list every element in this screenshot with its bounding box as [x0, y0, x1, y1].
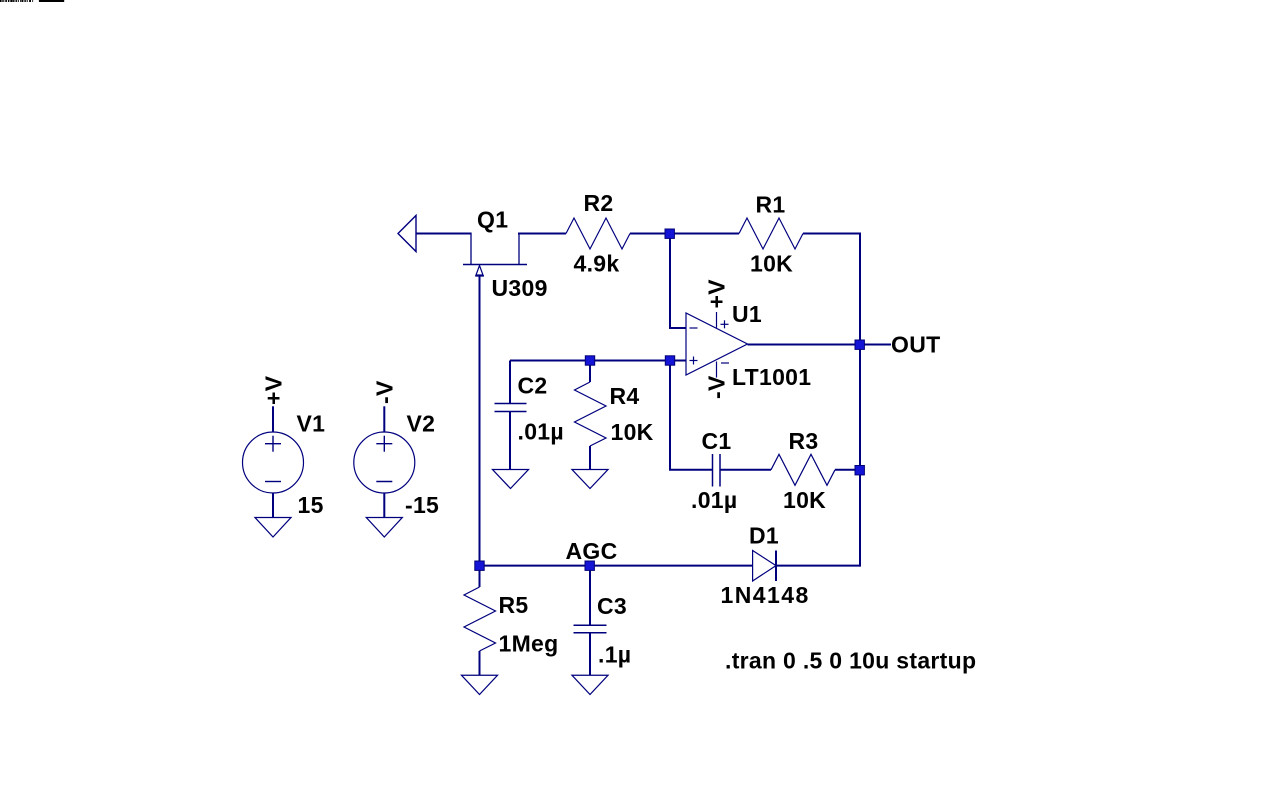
V1 plus mark — [265, 436, 281, 452]
cropped title bar fragment — [39, 0, 64, 2]
port arrow (left) — [398, 216, 416, 252]
wire junction to inverting input — [670, 234, 686, 329]
wire diode cathode to rail — [776, 565, 860, 567]
diode D1 cathode bar — [775, 551, 777, 582]
wire arrow to Q1 drain — [416, 233, 471, 235]
wire right rail vertical — [859, 233, 861, 567]
wire V2 top stub (-V net) — [383, 406, 385, 432]
wire R5 stem — [479, 566, 481, 587]
capacitor C1 — [713, 454, 721, 487]
op-amp minus mark (inv input) — [690, 327, 698, 329]
svg-text:U1: U1 — [732, 301, 762, 327]
svg-text:-15: -15 — [405, 492, 439, 518]
wire Q1 gate down to AGC — [479, 275, 481, 566]
resistor R4 — [575, 382, 607, 446]
svg-text:R2: R2 — [584, 190, 614, 216]
svg-text:15: 15 — [298, 492, 324, 518]
op-amp supply pin top — [716, 312, 718, 328]
svg-text:C2: C2 — [518, 372, 548, 398]
ground C2 — [493, 470, 529, 489]
svg-text:U309: U309 — [492, 275, 548, 301]
wire R5 to ground — [479, 651, 481, 675]
wire C3 to ground — [589, 633, 591, 676]
resistor R1 — [739, 218, 803, 249]
capacitor C2 — [495, 404, 527, 412]
wire R4 to ground — [589, 446, 591, 470]
ground R5 — [462, 675, 498, 694]
wire R4 stem — [589, 361, 591, 383]
op-amp supply pin bottom — [716, 362, 718, 378]
wire C2 to ground — [509, 412, 511, 470]
svg-text:R5: R5 — [499, 592, 529, 618]
ground V1 — [255, 518, 291, 538]
wire Q1 source to R2 — [518, 233, 566, 235]
svg-text:+V: +V — [704, 279, 730, 309]
svg-text:C1: C1 — [702, 428, 732, 454]
resistor R5 — [464, 587, 496, 651]
wire V1 to ground — [272, 493, 274, 518]
svg-text:10K: 10K — [750, 251, 793, 277]
capacitor C3 — [574, 625, 607, 633]
wire V2 to ground — [383, 493, 385, 518]
svg-text:1N4148: 1N4148 — [721, 582, 810, 608]
svg-text:.01µ: .01µ — [691, 487, 737, 513]
svg-text:OUT: OUT — [891, 331, 940, 357]
svg-text:10K: 10K — [611, 419, 654, 445]
wire C3 stem — [589, 566, 591, 626]
svg-text:D1: D1 — [749, 523, 779, 549]
resistor R3 — [771, 454, 835, 485]
ground R4 — [572, 470, 608, 489]
wire noninv junction down to feedback row — [670, 361, 713, 470]
junction AGC C3 — [585, 561, 594, 570]
ground C3 — [572, 675, 608, 694]
V2 plus mark — [376, 436, 392, 452]
op-amp plus mark (noninv input) — [690, 357, 698, 365]
svg-text:10K: 10K — [783, 487, 826, 513]
junction OUT — [855, 340, 864, 349]
ground V2 — [366, 518, 402, 538]
svg-text:C3: C3 — [597, 593, 627, 619]
transistor Q1 drain pin — [470, 233, 472, 265]
voltage source V2 circle — [354, 432, 415, 493]
wire C2 stem — [509, 361, 511, 404]
svg-text:R3: R3 — [789, 428, 819, 454]
junction noninv — [665, 356, 674, 365]
svg-text:.01µ: .01µ — [518, 419, 564, 445]
svg-text:Q1: Q1 — [477, 207, 508, 233]
junction R4 top — [585, 356, 594, 365]
svg-text:.tran 0 .5 0 10u startup: .tran 0 .5 0 10u startup — [725, 648, 976, 674]
transistor Q1 channel — [463, 264, 527, 266]
wire AGC row — [480, 565, 753, 567]
voltage source V1 circle — [243, 432, 304, 493]
junction feedback — [855, 466, 864, 475]
svg-text:V1: V1 — [297, 411, 326, 437]
svg-text:+V: +V — [261, 375, 287, 405]
svg-text:.1µ: .1µ — [598, 642, 631, 668]
svg-text:4.9k: 4.9k — [574, 251, 620, 277]
wire R3 to right rail — [835, 469, 860, 471]
svg-text:AGC: AGC — [566, 538, 618, 564]
wire R2 to R1 — [630, 233, 739, 235]
transistor Q1 gate arrow — [476, 266, 483, 276]
V1 minus mark — [265, 481, 281, 483]
svg-text:1Meg: 1Meg — [499, 631, 559, 657]
junction AGC left — [475, 561, 484, 570]
svg-text:-V: -V — [704, 375, 730, 399]
svg-text:R1: R1 — [756, 191, 786, 217]
wire middle row to non-inverting input — [510, 360, 686, 362]
resistor R2 — [566, 218, 630, 249]
op-amp minus mark (V- pin) — [721, 362, 729, 364]
wire C1 to R3 — [720, 469, 771, 471]
svg-text:LT1001: LT1001 — [732, 364, 811, 390]
svg-text:R4: R4 — [610, 383, 640, 409]
svg-text:V2: V2 — [407, 411, 436, 437]
wire R1 to right rail — [803, 233, 860, 235]
op-amp plus mark (V+ pin) — [721, 320, 729, 328]
svg-text:-V: -V — [372, 380, 398, 404]
transistor Q1 source pin — [518, 233, 520, 265]
cropped text fragments top-left — [0, 0, 33, 2]
wire OUT stub — [860, 344, 891, 346]
junction R2/R1 — [665, 229, 674, 238]
diode D1 — [753, 551, 776, 582]
op-amp output wire — [748, 344, 861, 346]
wire V1 top stub (+V net) — [272, 406, 274, 432]
V2 minus mark — [376, 481, 392, 483]
op-amp U1 triangle — [686, 313, 748, 375]
